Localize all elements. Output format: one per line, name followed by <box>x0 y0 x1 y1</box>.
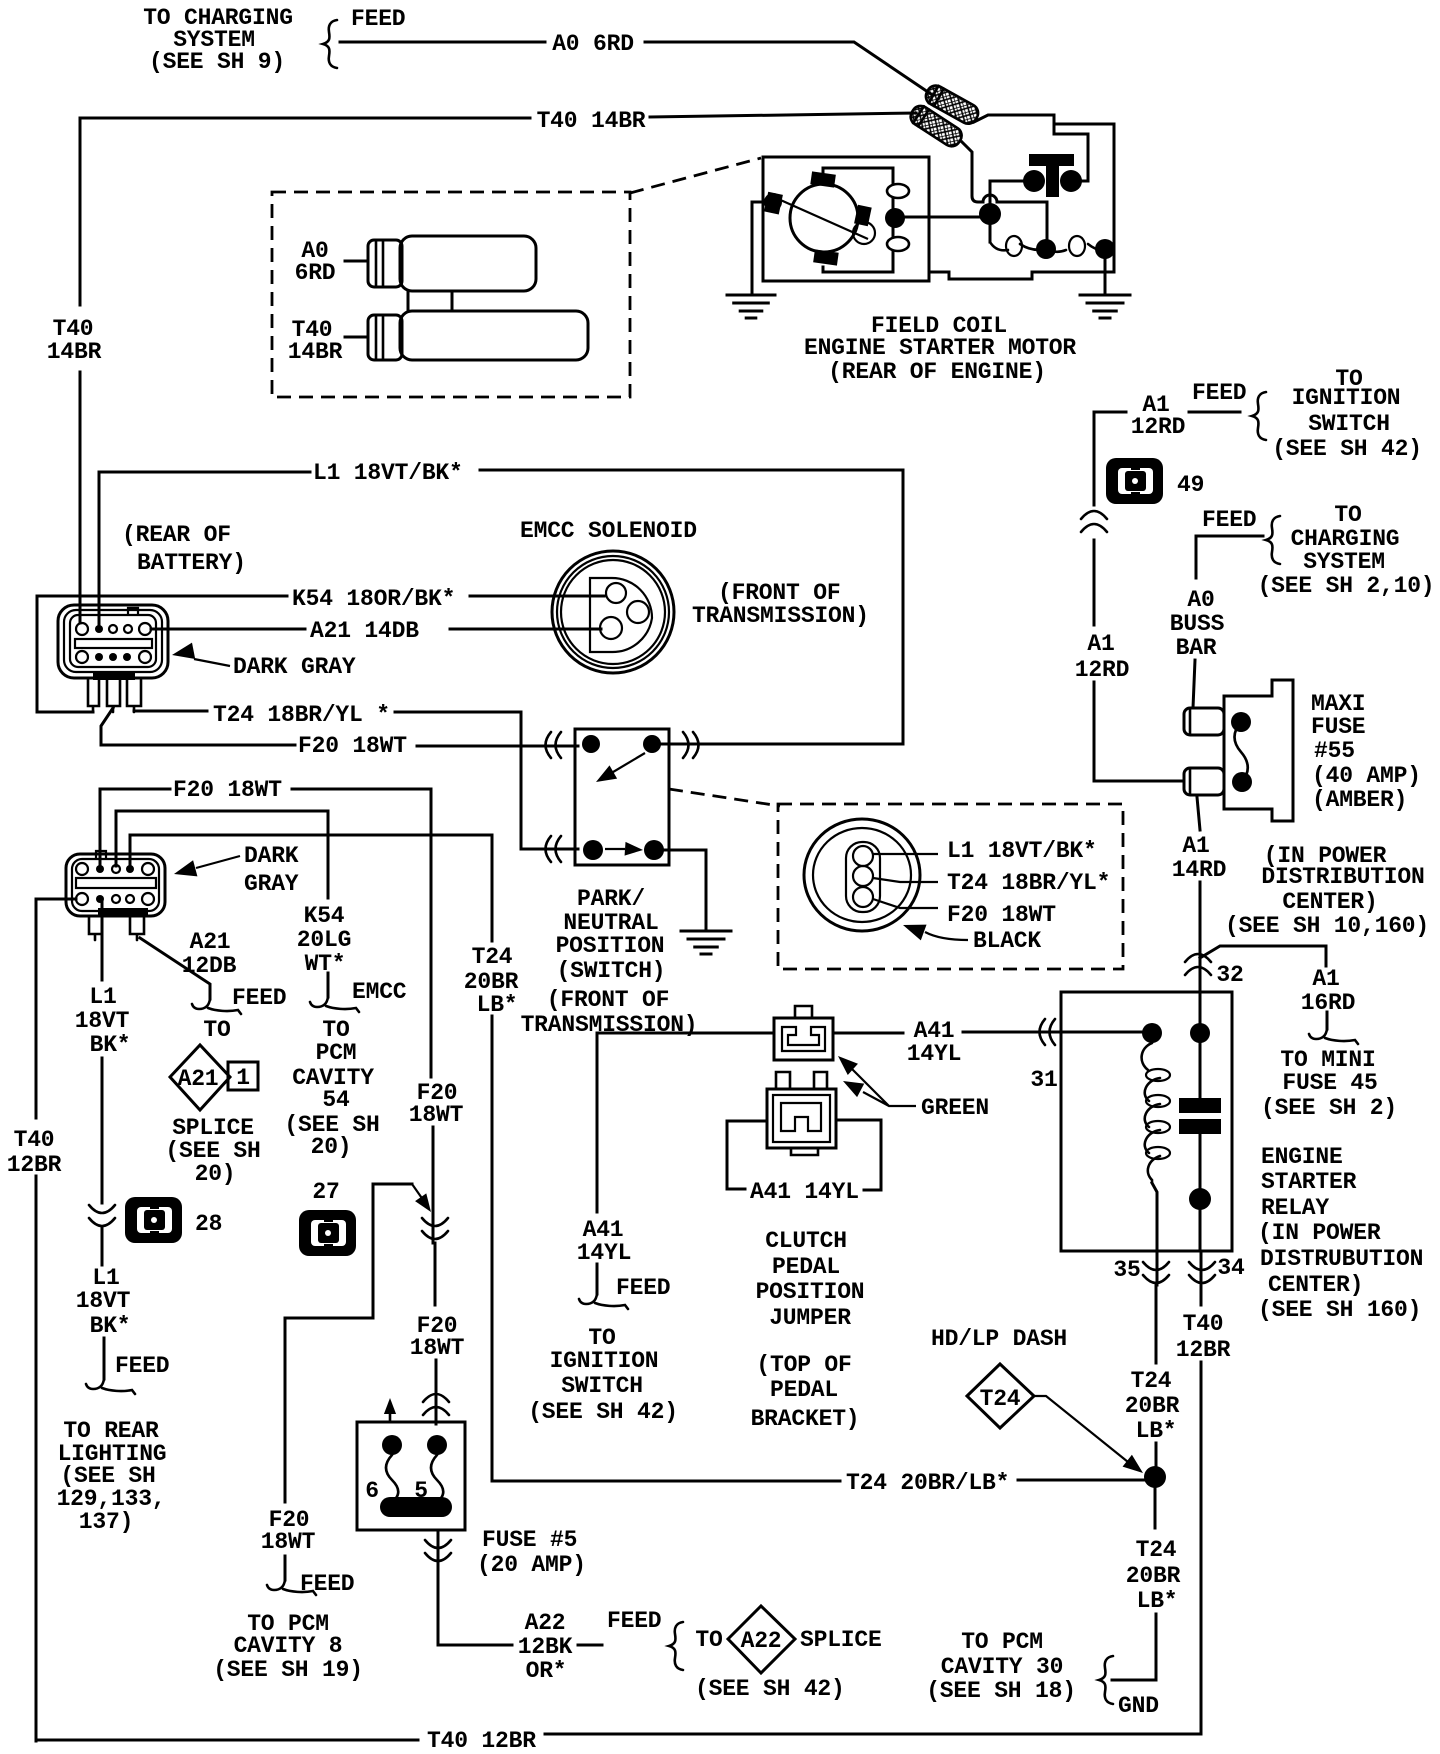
label A1 12RD (mid) <box>1075 631 1129 683</box>
wire T24 below junction <box>1112 1488 1156 1680</box>
label FEED (L1 rear lighting) <box>115 1353 169 1379</box>
break 31 <box>1040 1019 1056 1045</box>
connector C101 dark gray body <box>58 605 168 678</box>
label TO REAR LIGHTING (SEE SH 129,133, 137) <box>57 1418 167 1535</box>
svg-text:CENTER): CENTER) <box>1282 889 1377 915</box>
label A21 14DB <box>310 618 419 644</box>
wire T24 20BR from C102 <box>130 835 492 1481</box>
maxi fuse terminal (top) <box>1184 708 1224 735</box>
label FEED (A22) <box>607 1608 661 1634</box>
connector C102 pigtails <box>89 916 144 940</box>
svg-text:DISTRIBUTION: DISTRIBUTION <box>1261 864 1424 890</box>
wire T24 18BR/YL* from C101 <box>134 711 578 849</box>
wire A41 14YL horizontal <box>597 1032 1032 1033</box>
label A21 (in diamond) + 1 <box>178 1065 250 1092</box>
svg-text:20): 20) <box>311 1134 352 1160</box>
wire A0 buss bar <box>1193 536 1263 708</box>
wire T40 12BR from C102 left <box>36 899 76 1741</box>
splice A21 diamond <box>170 1045 258 1110</box>
svg-text:L1 18VT/BK*: L1 18VT/BK* <box>947 838 1097 864</box>
svg-text:137): 137) <box>79 1509 133 1535</box>
svg-text:FUSE 45: FUSE 45 <box>1282 1070 1377 1096</box>
svg-text:POSITION: POSITION <box>756 1279 865 1305</box>
svg-text:18WT: 18WT <box>261 1529 316 1555</box>
svg-text:A21: A21 <box>190 929 231 955</box>
wire A22 12BK from fuse <box>438 1530 602 1645</box>
label A1 12RD (top) <box>1131 392 1185 440</box>
svg-text:12RD: 12RD <box>1075 657 1129 683</box>
svg-text:12RD: 12RD <box>1131 414 1185 440</box>
connector C102 pins bottom row <box>76 893 154 905</box>
label F20 18WT (to switch) <box>298 733 407 759</box>
svg-text:5: 5 <box>414 1478 428 1504</box>
svg-text:T40: T40 <box>1183 1311 1224 1337</box>
svg-text:(SEE SH 2): (SEE SH 2) <box>1261 1095 1397 1121</box>
fuse elements <box>386 1455 443 1498</box>
label T40 14BR <box>537 108 646 134</box>
svg-text:STARTER: STARTER <box>1261 1169 1357 1195</box>
svg-text:IGNITION: IGNITION <box>550 1348 659 1374</box>
label TO + splice A22 diamond + SPLICE <box>695 1606 881 1673</box>
svg-text:CAVITY 30: CAVITY 30 <box>941 1654 1063 1680</box>
svg-text:A22: A22 <box>741 1628 782 1654</box>
label (FRONT OF TRANSMISSION) switch <box>521 987 698 1038</box>
svg-text:(SEE SH 19): (SEE SH 19) <box>213 1657 363 1683</box>
label FEED (A41) <box>616 1275 670 1301</box>
wire A1 12RD corner to feed <box>1094 412 1240 781</box>
hook K54 EMCC <box>310 997 359 1012</box>
label A1 16RD <box>1301 966 1355 1016</box>
svg-text:(SEE SH 42): (SEE SH 42) <box>528 1399 678 1425</box>
branch wire to PCM cavity 8 <box>285 1184 437 1580</box>
EMCC solenoid keyway shape <box>590 578 652 652</box>
svg-text:BLACK: BLACK <box>973 928 1041 954</box>
svg-text:CLUTCH: CLUTCH <box>765 1228 847 1254</box>
relay contact junction dots <box>1189 1023 1211 1210</box>
label A22 12BK OR* <box>518 1610 573 1684</box>
battery cable crimp terminal T40 (hatched) <box>907 102 965 149</box>
connector C101 pigtails <box>88 680 141 712</box>
connector C102 pins top row <box>76 863 154 875</box>
PNP switch bottom arrow <box>605 842 643 857</box>
svg-text:POSITION: POSITION <box>556 933 665 959</box>
label GND <box>1118 1693 1159 1719</box>
label CLUTCH PEDAL POSITION JUMPER <box>756 1228 865 1331</box>
label 32 <box>1216 962 1243 988</box>
maxi fuse terminal (bottom) <box>1184 768 1224 795</box>
svg-text:LB*: LB* <box>1137 1588 1178 1614</box>
svg-text:(SWITCH): (SWITCH) <box>557 958 666 984</box>
svg-text:20BR: 20BR <box>1126 1563 1181 1589</box>
label T24 20BR LB* (below junction) <box>1126 1537 1181 1614</box>
solenoid wiring outer path <box>929 115 1114 279</box>
label T40 14BR (left line) <box>47 316 102 365</box>
svg-text:32: 32 <box>1216 962 1243 988</box>
wire A21 12DB from C102 pigtail <box>140 938 210 999</box>
brace charging feed <box>1266 516 1280 564</box>
junction dot solenoid <box>979 203 1001 225</box>
wire A1 14RD branch to mini fuse <box>1200 946 1327 1029</box>
label A41 14YL (column) <box>577 1217 631 1266</box>
label T24 18BR/YL* <box>213 702 390 728</box>
label L1 18VT/BK* (black conn) <box>947 838 1097 864</box>
svg-text:20BR: 20BR <box>1125 1393 1180 1419</box>
label A1 14RD <box>1172 833 1226 883</box>
svg-text:TO: TO <box>695 1627 722 1653</box>
svg-text:TRANSMISSION): TRANSMISSION) <box>692 603 869 629</box>
svg-text:(SEE SH 9): (SEE SH 9) <box>149 49 285 75</box>
label A21 12DB <box>182 929 237 979</box>
label SPLICE (SEE SH 20) <box>165 1115 260 1187</box>
svg-text:FUSE: FUSE <box>1311 714 1365 740</box>
svg-text:14BR: 14BR <box>47 339 102 365</box>
label (IN POWER DISTRIBUTION CENTER)(SEE SH 10,160) <box>1225 843 1429 939</box>
wire A0 6RD top horizontal <box>340 42 931 94</box>
solenoid contact T bar <box>1023 154 1082 197</box>
svg-text:F20 18WT: F20 18WT <box>298 733 407 759</box>
svg-text:BK*: BK* <box>90 1032 131 1058</box>
svg-text:T24 18BR/YL *: T24 18BR/YL * <box>213 702 390 728</box>
label BLACK with arrow <box>900 917 1041 954</box>
label F20 18WT (left of fuse) <box>261 1507 316 1555</box>
svg-text:FEED: FEED <box>300 1571 354 1597</box>
svg-text:EMCC SOLENOID: EMCC SOLENOID <box>520 518 697 544</box>
svg-text:RELAY: RELAY <box>1261 1195 1329 1221</box>
svg-text:IGNITION: IGNITION <box>1292 385 1401 411</box>
svg-text:BAR: BAR <box>1176 635 1217 661</box>
label (SEE SH 42) (A22) <box>695 1676 845 1702</box>
fuse buss bar <box>380 1497 452 1517</box>
battery detail dashed box <box>272 192 630 397</box>
label A0 BUSS BAR <box>1170 587 1225 661</box>
wire A41 down to ignition feed <box>596 1033 599 1294</box>
label PARK/NEUTRAL POSITION (SWITCH) <box>556 886 666 984</box>
svg-text:FEED: FEED <box>232 985 286 1011</box>
PNP switch contacts bottom <box>583 840 664 860</box>
black connector dashed box <box>778 804 1123 969</box>
svg-text:FEED: FEED <box>1202 507 1256 533</box>
svg-text:(SEE SH 160): (SEE SH 160) <box>1258 1297 1421 1323</box>
relay contact wire <box>1199 992 1202 1251</box>
connector C101 slot bar <box>75 639 152 648</box>
label 31 <box>1030 1067 1057 1093</box>
black connector pin leader lines <box>873 854 938 908</box>
EMCC solenoid connector rings <box>552 551 674 673</box>
svg-text:6: 6 <box>365 1478 379 1504</box>
svg-text:18VT: 18VT <box>76 1288 131 1314</box>
svg-text:54: 54 <box>322 1087 350 1113</box>
svg-text:T40 14BR: T40 14BR <box>537 108 646 134</box>
label T40 12BR (left) <box>7 1127 62 1178</box>
svg-text:18WT: 18WT <box>409 1102 464 1128</box>
svg-text:T24 18BR/YL*: T24 18BR/YL* <box>947 870 1110 896</box>
label A0 6RD (battery terminal) <box>295 238 336 286</box>
svg-text:BUSS: BUSS <box>1170 611 1225 637</box>
label: TO CHARGING SYSTEM (SEE SH 9) <box>143 5 293 75</box>
svg-text:TO: TO <box>1334 502 1361 528</box>
label 27 <box>312 1179 339 1205</box>
label TO PCM CAVITY 30 (SEE SH 18) <box>926 1629 1076 1704</box>
engine starter relay box <box>1061 992 1232 1251</box>
svg-text:(REAR OF ENGINE): (REAR OF ENGINE) <box>828 359 1046 385</box>
wire T40 14BR left vertical <box>79 118 82 623</box>
svg-text:DISTRUBUTION: DISTRUBUTION <box>1260 1246 1423 1272</box>
svg-text:PARK/: PARK/ <box>577 886 645 912</box>
svg-text:L1 18VT/BK*: L1 18VT/BK* <box>313 460 463 486</box>
wire cable T40 to solenoid junction (with hop) <box>962 142 1047 249</box>
svg-text:12BR: 12BR <box>1176 1337 1231 1363</box>
svg-text:DARK: DARK <box>244 843 299 869</box>
labels 6 and 5 <box>365 1478 428 1504</box>
svg-text:LB*: LB* <box>1136 1418 1177 1444</box>
starter motor terminal junction <box>885 208 905 228</box>
label TO PCM CAVITY 8 (SEE SH 19) <box>213 1611 363 1683</box>
label ENGINE STARTER RELAY block <box>1258 1144 1423 1323</box>
label K54 20LG WT* <box>297 903 351 977</box>
svg-text:SWITCH: SWITCH <box>561 1373 643 1399</box>
svg-text:14YL: 14YL <box>577 1240 631 1266</box>
svg-text:28: 28 <box>195 1211 222 1237</box>
svg-text:EMCC: EMCC <box>352 979 407 1005</box>
black connector oval <box>804 819 920 931</box>
wire solenoid contact to junction <box>990 181 1036 214</box>
ground (PNP switch) <box>681 931 731 954</box>
label FUSE #5 (20 AMP) <box>477 1527 586 1578</box>
svg-text:6RD: 6RD <box>295 260 336 286</box>
svg-text:T40: T40 <box>14 1127 55 1153</box>
svg-text:T24 20BR/LB*: T24 20BR/LB* <box>846 1470 1009 1496</box>
svg-text:(FRONT OF: (FRONT OF <box>547 987 669 1013</box>
wire F20 18WT from C101 <box>101 708 578 746</box>
svg-text:SYSTEM: SYSTEM <box>1303 549 1385 575</box>
label T24 20BR LB* (above dot) <box>1125 1368 1180 1444</box>
svg-text:(SEE SH 42): (SEE SH 42) <box>1272 436 1422 462</box>
wire L1 from C102 down <box>102 902 104 1379</box>
clutch jumper loop wire A41 14YL <box>727 1120 881 1190</box>
break below fuse <box>425 1540 451 1561</box>
hook F20 PCM8 feed <box>267 1580 316 1595</box>
connector C101 pins top row <box>76 623 151 635</box>
svg-text:F20 18WT: F20 18WT <box>173 777 282 803</box>
EMCC solenoid pin circles <box>600 583 649 639</box>
maxi fuse 55 body <box>1224 680 1293 821</box>
svg-text:A22: A22 <box>525 1610 566 1636</box>
svg-text:A1: A1 <box>1087 631 1114 657</box>
svg-text:20LG: 20LG <box>297 927 351 953</box>
svg-text:HD/LP DASH: HD/LP DASH <box>931 1326 1067 1352</box>
connector C101 wire seal bar <box>93 671 135 680</box>
svg-text:GND: GND <box>1118 1693 1159 1719</box>
leader T24 diamond to junction <box>1034 1396 1148 1479</box>
svg-text:12DB: 12DB <box>182 953 237 979</box>
label DARK GRAY (C102) with arrow <box>172 843 299 897</box>
grommet 27 <box>299 1210 356 1256</box>
starter field frame <box>823 168 909 272</box>
label F20 18WT (above fuse) <box>410 1313 465 1361</box>
svg-text:31: 31 <box>1030 1067 1057 1093</box>
wire A21 14DB from C101 <box>151 628 601 631</box>
relay coil to terminal 35 <box>1152 1183 1157 1285</box>
svg-text:A21 14DB: A21 14DB <box>310 618 419 644</box>
label GREEN with arrows <box>833 1050 989 1121</box>
label (TOP OF PEDAL BRACKET) <box>751 1352 860 1432</box>
starter motor armature circle <box>776 184 868 252</box>
svg-text:K54 18OR/BK*: K54 18OR/BK* <box>292 586 455 612</box>
label 28 <box>195 1211 222 1237</box>
relay A41 wire into coil <box>1029 1031 1143 1034</box>
svg-text:FEED: FEED <box>1192 380 1246 406</box>
label T24 20BR LB* (column upper) <box>464 944 519 1018</box>
battery terminal A0 <box>345 236 536 291</box>
break 32 <box>1185 954 1211 975</box>
svg-text:FUSE #5: FUSE #5 <box>482 1527 577 1553</box>
svg-text:27: 27 <box>312 1179 339 1205</box>
connector C101 pins bottom row <box>76 651 151 663</box>
svg-text:(SEE SH 2,10): (SEE SH 2,10) <box>1258 573 1435 599</box>
svg-text:CENTER): CENTER) <box>1268 1272 1363 1298</box>
label TO IGNITION SWITCH (SEE SH 42) <box>1272 366 1422 462</box>
svg-text:SWITCH: SWITCH <box>1308 411 1390 437</box>
wire motor terminal to solenoid junction <box>895 216 990 219</box>
label FEED (charging system feed) <box>351 6 405 32</box>
svg-text:T24: T24 <box>472 944 513 970</box>
break 35 <box>1143 1262 1169 1283</box>
label 34 <box>1217 1255 1245 1281</box>
break on F20 below branch <box>422 1218 448 1239</box>
label FEED (charging) <box>1202 507 1256 533</box>
svg-text:1: 1 <box>236 1065 250 1091</box>
brace at charging feed <box>323 20 337 68</box>
svg-text:FEED: FEED <box>616 1275 670 1301</box>
svg-text:T24: T24 <box>1136 1537 1177 1563</box>
svg-text:L1: L1 <box>89 984 116 1010</box>
maxi fuse element <box>1231 712 1252 792</box>
svg-text:PCM: PCM <box>316 1040 357 1066</box>
svg-text:JUMPER: JUMPER <box>769 1305 851 1331</box>
svg-text:FEED: FEED <box>115 1353 169 1379</box>
battery terminal T40 <box>345 291 588 360</box>
svg-text:ENGINE: ENGINE <box>1261 1144 1343 1170</box>
wire T40 12BR from relay 34 <box>36 1251 1201 1740</box>
label TO CHARGING SYSTEM (SEE SH 2,10) <box>1258 502 1435 599</box>
svg-text:BK*: BK* <box>90 1313 131 1339</box>
dashed leader switch to black connector <box>669 789 780 806</box>
svg-text:(TOP OF: (TOP OF <box>756 1352 851 1378</box>
label FEED (A21) <box>232 985 286 1011</box>
svg-text:PEDAL: PEDAL <box>770 1377 838 1403</box>
engine starter motor outer box <box>763 157 929 281</box>
svg-text:LB*: LB* <box>477 992 518 1018</box>
black connector pin tower <box>846 842 880 912</box>
label 35 <box>1113 1257 1140 1283</box>
label MAXI FUSE #55 (40 AMP)(AMBER) <box>1311 691 1421 813</box>
label F20 18WT (mid column) <box>409 1080 464 1128</box>
PNP switch moving contact arrow <box>592 753 645 789</box>
label L1 18VT BK* (lower) <box>76 1265 131 1339</box>
wire L1 18VT/BK* from C101 <box>99 470 903 744</box>
svg-text:A0: A0 <box>1187 587 1214 613</box>
break F20 into switch <box>546 732 562 758</box>
svg-text:TO: TO <box>203 1017 230 1043</box>
hook A21 feed <box>192 999 241 1014</box>
svg-text:OR*: OR* <box>526 1658 567 1684</box>
wire A1 14RD below fuse <box>1197 797 1200 992</box>
label A0 6RD <box>552 31 634 57</box>
label TO IGNITION SWITCH (SEE SH 42) (A41) <box>528 1325 678 1425</box>
clutch jumper upper connector <box>774 1006 833 1060</box>
svg-text:14RD: 14RD <box>1172 857 1226 883</box>
grommet 28 <box>125 1197 182 1243</box>
fuse cavity terminals <box>382 1435 447 1455</box>
relay coil junction dot <box>1142 1023 1162 1043</box>
label T40 12BR (bottom wire) <box>427 1728 536 1754</box>
svg-text:FEED: FEED <box>351 6 405 32</box>
splice diamond T24 <box>967 1364 1034 1428</box>
label F20 18WT (C102 top) <box>173 777 282 803</box>
brace ignition feed <box>1252 392 1266 440</box>
svg-text:(20 AMP): (20 AMP) <box>477 1552 586 1578</box>
label T24 20BR/LB* <box>846 1470 1009 1496</box>
hook A1 16RD <box>1309 1029 1358 1044</box>
wire T40 14BR top horizontal <box>80 113 916 118</box>
label L1 18VT/BK* <box>313 460 463 486</box>
svg-text:BATTERY): BATTERY) <box>137 550 246 576</box>
fuse 5 block box <box>357 1422 465 1530</box>
brace GND <box>1099 1656 1113 1704</box>
svg-text:12BR: 12BR <box>7 1152 62 1178</box>
ground (starter motor case) <box>727 202 775 318</box>
wire K54 18OR/BK* from C101 <box>37 596 604 712</box>
break T24 into switch <box>546 836 562 862</box>
label A41 14YL (wire) <box>907 1018 961 1067</box>
label 49 <box>1177 472 1204 498</box>
clutch jumper lower connector <box>767 1072 836 1155</box>
connector C102 seal bar <box>98 908 148 916</box>
svg-text:T24: T24 <box>1131 1368 1172 1394</box>
svg-text:TO PCM: TO PCM <box>961 1629 1043 1655</box>
svg-text:18VT: 18VT <box>75 1008 130 1034</box>
svg-text:#55: #55 <box>1314 738 1355 764</box>
label EMCC <box>352 979 407 1005</box>
label T24 18BR/YL* (black conn) <box>947 870 1110 896</box>
break on A1 12RD wire <box>1081 511 1107 532</box>
svg-text:SPLICE: SPLICE <box>800 1627 882 1653</box>
wire F20 18WT from C102 to fuse column <box>100 789 436 1424</box>
label FEED (F20 PCM8) <box>300 1571 354 1597</box>
svg-text:16RD: 16RD <box>1301 990 1355 1016</box>
wire K54 20LG from C102 <box>116 811 328 997</box>
svg-text:GRAY: GRAY <box>244 871 299 897</box>
wire T24 from relay 35 <box>1155 1283 1158 1467</box>
connector C102 dark gray body <box>66 851 165 916</box>
svg-text:(REAR OF: (REAR OF <box>122 522 231 548</box>
solenoid wiring inner path (battery stud to contact) <box>1054 134 1088 181</box>
label A41 14YL (loop) <box>750 1179 859 1205</box>
svg-text:K54: K54 <box>304 903 345 929</box>
svg-text:GREEN: GREEN <box>921 1095 989 1121</box>
svg-text:(SEE SH 10,160): (SEE SH 10,160) <box>1225 913 1429 939</box>
label (REAR OF BATTERY) <box>122 522 246 576</box>
label DARK GRAY (C101) with arrow <box>170 643 355 680</box>
solenoid pull-in coil <box>990 214 1115 259</box>
label F20 18WT (black conn) <box>947 902 1056 928</box>
svg-text:T24: T24 <box>980 1386 1021 1412</box>
svg-text:FEED: FEED <box>607 1608 661 1634</box>
label FIELD COIL ENGINE STARTER MOTOR <box>804 313 1076 385</box>
break L1 out of switch <box>683 732 699 758</box>
svg-text:(SEE SH 42): (SEE SH 42) <box>695 1676 845 1702</box>
label T24 (diamond) <box>980 1386 1021 1412</box>
